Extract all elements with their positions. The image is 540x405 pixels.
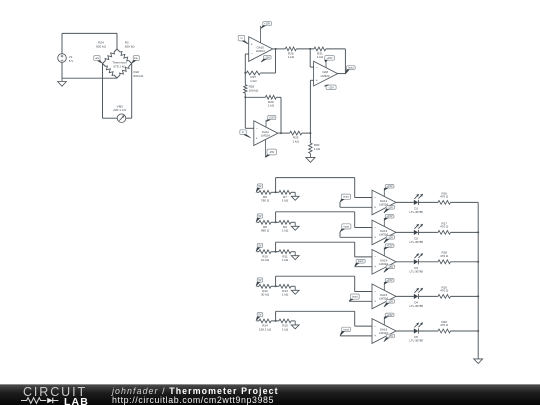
wire OA8 output [337,73,345,75]
resistor R22 [129,64,132,67]
resistor R18 [438,260,451,264]
svg-text:470 Ω: 470 Ω [440,289,449,293]
power flag +15V OA14 [385,244,394,248]
ground below R30 [309,153,311,157]
CircuitLab logo wordmark CIRCUIT [23,385,87,399]
power flag +15V at OA10 [263,22,272,26]
power flag +15V at OA8 [325,56,335,61]
wire 5V stub row OA14 [257,251,260,253]
op-amp OA13 [372,220,396,245]
wire OA10 - input stub [245,53,248,55]
wire R31 to feedback corner [326,48,346,50]
resistor R25 [290,131,302,135]
resistor R26 [285,47,296,51]
wire from voltmeter right terminal [126,117,132,119]
svg-text:-15V: -15V [269,150,275,154]
wire tap across row OA15 [276,275,355,277]
svg-text:−: − [374,196,376,200]
wire V1 top lead [61,33,63,53]
svg-text:5V: 5V [258,184,261,188]
wire OA13 output to LED [396,231,414,233]
net flag out row OA15 [351,294,360,299]
LED D1 [414,200,418,205]
svg-text:inout: inout [358,259,364,263]
svg-text:1 kΩ: 1 kΩ [317,55,324,59]
op-amp OA11 [254,121,278,146]
wire divider mid row OA13 [271,221,279,223]
svg-text:5 V: 5 V [69,59,75,63]
svg-text:−: − [374,290,376,294]
svg-text:820 kΩ: 820 kΩ [134,74,144,78]
svg-text:−: − [374,255,376,259]
power pin wire OA14 V+ [383,247,385,255]
power pin wire OA8 V+ [325,60,327,67]
svg-text:+: + [374,265,376,269]
svg-text:1 kΩ: 1 kΩ [268,104,275,108]
junction rail row 5 [477,330,479,332]
resistor R9 [279,220,291,224]
svg-text:5V: 5V [258,214,261,218]
wire R25 to divider node [302,132,311,134]
net flag bridge left node [94,56,100,61]
wire 5V stub row OA12 [257,191,260,193]
resistor R17 [438,231,451,235]
power flag -15V at OA11 [267,149,276,155]
svg-text:+15V: +15V [387,184,393,188]
resistor R6 [259,190,271,194]
junction divider tap row OA15 [275,285,277,287]
net flag out at OA8 output [347,66,356,70]
wire to ground row OA12 [291,191,295,193]
svg-text:+: + [374,236,376,240]
power flag 5V row OA15 [257,278,263,282]
wire tap riser row OA15 [275,276,277,286]
CircuitLab logo wordmark LAB [64,396,89,405]
wire into - input OA12 [355,197,372,199]
junction OA11 output node [280,132,282,134]
wire tap across row OA13 [276,211,355,213]
footer url [112,395,274,405]
ground divider row OA16 [294,321,296,325]
net flag in at OA11 + input [240,130,247,135]
svg-text:470 Ω: 470 Ω [440,254,449,258]
resistor R14 [259,319,271,323]
wire to R29 [245,96,265,98]
svg-text:LTL-30788: LTL-30788 [410,269,424,273]
wire divider mid row OA12 [271,191,279,193]
wire to ground row OA15 [291,285,295,287]
svg-text:◄in: ◄in [95,56,100,60]
wire out flag drop row OA12 [339,202,341,207]
svg-text:in►: in► [134,56,139,60]
svg-text:1 kΩ: 1 kΩ [314,147,321,151]
svg-text:-15V: -15V [388,265,394,269]
wire into bridge top vertex [116,33,118,49]
svg-text:+: + [251,42,253,46]
wire down to OA11 output [280,97,282,133]
power flag -15V OA14 [386,265,394,269]
svg-text:1 kΩ: 1 kΩ [282,293,289,297]
resistor R30 [309,143,312,153]
svg-text:1 kΩ: 1 kΩ [250,79,257,83]
ground divider row OA14 [294,252,296,256]
wire OA14 output to LED [396,261,414,263]
svg-text:5V: 5V [258,278,261,282]
wire tap across row OA16 [276,310,355,312]
power pin wire OA11 V- [264,140,266,158]
wire tap down row OA16 [354,311,356,326]
wire into + input OA12 [340,206,372,208]
junction divider tap row OA14 [275,251,277,253]
svg-text:−: − [374,226,376,230]
wire R29 to corner [276,96,281,98]
resistor R20 [438,329,451,333]
wire into OA8 - input [310,66,314,68]
svg-text:−: − [256,127,258,131]
junction rail row 4 [477,295,479,297]
svg-text:LM324: LM324 [256,49,265,53]
junction rail row 3 [477,261,479,263]
junction divider tap row OA13 [275,221,277,223]
LED D2 [414,230,418,235]
wire feedback down to OA8 output [344,49,346,74]
resistor R12 [259,284,271,288]
wire LED to R17 [419,231,438,233]
net flag out row OA14 [356,259,365,263]
wire into - input OA14 [355,256,372,258]
wire tap riser row OA12 [275,178,277,193]
wire tap riser row OA14 [275,242,277,252]
wire bridge right node down to voltmeter [131,64,133,119]
wire R26 to node [296,48,314,50]
svg-text:220.1 mV: 220.1 mV [113,108,127,112]
wire into OA11 - input [245,127,254,129]
power flag -15V OA16 [386,334,394,338]
ground divider row OA12 [294,192,296,196]
svg-text:−: − [251,52,253,56]
svg-text:+: + [374,300,376,304]
power flag 5V row OA14 [257,243,263,247]
wire OA10 output [273,48,286,50]
power flag 5V row OA16 [257,313,263,317]
wire OA8 + input stub [310,79,313,81]
svg-text:679.1 kΩ: 679.1 kΩ [113,64,126,68]
op-amp OA12 [372,190,396,215]
LED D4 [414,294,418,299]
svg-text:inout: inout [343,327,349,331]
op-amp OA16 [372,319,396,344]
svg-text:+15V: +15V [269,116,275,120]
wire into - input OA16 [355,325,372,327]
svg-text:+15V: +15V [264,22,270,26]
svg-text:100 kΩ: 100 kΩ [249,88,259,92]
resistor R19 [438,295,451,299]
LED D5 [414,328,418,333]
power flag +15V at OA11 [268,115,276,119]
svg-text:LM324: LM324 [321,74,330,78]
wire into + input OA14 [355,266,372,268]
svg-text:1 kΩ: 1 kΩ [282,258,289,262]
op-amp OA10 [249,37,273,62]
junction divider node [309,132,311,134]
wire R16 to rail [451,201,479,203]
op-amp OA14 [372,250,396,275]
op-amp OA8 [314,61,338,86]
wire LED to R18 [419,261,438,263]
svg-text:+: + [256,136,258,140]
svg-text:1 kΩ: 1 kΩ [288,55,295,59]
voltage source V1 [58,54,67,63]
wire tap down row OA15 [354,276,356,291]
svg-text:30 kΩ: 30 kΩ [261,293,270,297]
ground divider row OA13 [294,222,296,226]
svg-text:-15V: -15V [388,334,394,338]
wire tap down row OA12 [354,178,356,198]
resistor R10 [259,250,271,254]
wire feedback left leg [244,54,246,85]
svg-text:980 Ω: 980 Ω [261,229,270,233]
power flag +15V OA15 [385,279,394,283]
svg-text:−: − [374,324,376,328]
wire tap across row OA12 [276,177,355,179]
wire OA12 output to LED [396,201,414,203]
junction OA10 output node [275,48,277,50]
thermistor RT1 [103,64,106,67]
power pin wire OA13 V+ [383,218,385,226]
power flag +15V OA13 [385,215,394,219]
wire tap riser row OA13 [275,212,277,223]
wire 5V stub row OA16 [257,320,260,322]
junction R27 R28 [244,72,246,74]
wire bridge left node down to voltmeter [102,64,104,119]
resistor R13 [279,284,291,288]
svg-text:-15V: -15V [388,235,394,239]
wire tap riser row OA16 [275,311,277,321]
wire 5V stub row OA15 [257,285,260,287]
resistor R31 [314,47,326,51]
svg-text:-15V: -15V [328,85,334,89]
wire LED return rail [477,202,479,359]
junction rail row 2 [477,231,479,233]
wire into + input OA16 [340,335,372,337]
power pin wire OA10 V+ [260,26,262,43]
wire R17 to rail [451,231,479,233]
svg-text:inout: inout [352,295,358,299]
wire tap down row OA13 [354,212,356,228]
power pin wire OA11 V+ [265,120,267,128]
wire OA16 output to LED [396,330,414,332]
power flag -15V OA15 [386,300,394,304]
power flag 5V row OA13 [257,214,263,218]
net flag in at OA10 + input [238,35,245,41]
resistor R24 [114,49,117,52]
power flag -15V OA13 [386,236,394,240]
svg-text:inout: inout [348,66,354,70]
junction R29 tap [244,96,246,98]
svg-text:470 Ω: 470 Ω [440,323,449,327]
wire to ground row OA14 [291,251,295,253]
wire node down to OA8 inverting input [309,49,311,67]
svg-text:+: + [316,79,318,83]
wire into + input OA15 [349,300,372,302]
svg-text:-15V: -15V [265,55,271,59]
power flag -15V at OA10 [264,56,272,60]
wire divider mid row OA16 [271,320,279,322]
wire into - input OA13 [355,227,372,229]
wire bottom rail to bridge bottom vertex [62,77,117,79]
wire OA15 output to LED [396,295,414,297]
net flag out row OA16 [342,327,351,331]
LED D3 [414,259,418,264]
svg-text:820 kΩ: 820 kΩ [125,45,135,49]
svg-text:-15V: -15V [388,205,394,209]
wire tap across row OA14 [276,241,355,243]
ground at rail bottom [477,358,479,360]
svg-text:inout: inout [344,224,350,228]
svg-text:+: + [374,334,376,338]
wire down to OA11 - input [244,93,246,128]
svg-text:10 kΩ: 10 kΩ [261,258,270,262]
wire LED to R20 [419,330,438,332]
wire LED to R19 [419,295,438,297]
svg-text:+15V: +15V [326,56,332,60]
wire R19 to rail [451,295,479,297]
wire R18 to rail [451,261,479,263]
resistor R11 [279,250,291,254]
svg-text:1 kΩ: 1 kΩ [282,327,289,331]
svg-text:138.1 kΩ: 138.1 kΩ [259,327,272,331]
svg-text:820 kΩ: 820 kΩ [96,45,106,49]
CircuitLab logo resistor-diode glyph [21,396,64,405]
junction divider tap row OA16 [275,320,277,322]
wire 5V stub row OA13 [257,221,260,223]
svg-text:1 kΩ: 1 kΩ [293,139,300,143]
wire top rail from V1 to bridge [62,32,117,34]
svg-text:inout: inout [343,195,349,199]
power flag -15V OA12 [386,206,394,210]
resistor R29 [265,95,276,99]
svg-text:+15V: +15V [387,214,393,218]
junction divider tap row OA12 [275,191,277,193]
resistor R8 [259,220,271,224]
svg-text:LTL-30788: LTL-30788 [410,339,424,343]
op-amp OA15 [372,284,396,309]
wire OA11 output [278,132,290,134]
svg-text:1 kΩ: 1 kΩ [282,229,289,233]
wire to ground row OA16 [291,320,295,322]
resistor R7 [279,190,291,194]
resistor R28 [244,85,247,94]
svg-text:470 Ω: 470 Ω [440,225,449,229]
svg-text:-15V: -15V [388,299,394,303]
svg-text:5V: 5V [258,313,261,317]
wire to ground row OA13 [291,221,295,223]
svg-text:+15V: +15V [387,313,393,317]
net flag bridge right node [133,56,139,61]
power pin wire OA12 V+ [383,188,385,196]
svg-text:+15V: +15V [387,278,393,282]
svg-text:780 Ω: 780 Ω [261,199,270,203]
svg-text:−: − [316,65,318,69]
net flag out row OA12 [341,194,350,199]
svg-text:470 Ω: 470 Ω [440,195,449,199]
resistor R2 [117,49,120,52]
wire feedback up to OA10 output [275,49,277,73]
wire to voltmeter left terminal [103,117,118,119]
svg-text:LM324: LM324 [261,133,270,137]
ground divider row OA15 [294,286,296,290]
wire tap down row OA14 [354,242,356,257]
svg-text:LTL-30788: LTL-30788 [410,240,424,244]
svg-text:+: + [374,206,376,210]
resistor R27 [246,71,260,75]
wire into - input OA15 [355,291,372,293]
svg-text:LTL-30788: LTL-30788 [410,210,424,214]
svg-text:LTL-30788: LTL-30788 [410,304,424,308]
power pin wire OA15 V+ [383,282,385,290]
resistor R16 [438,201,451,205]
svg-text:5V: 5V [258,244,261,248]
wire out flag drop row OA13 [339,232,341,238]
svg-text:+15V: +15V [387,244,393,248]
power pin wire OA16 V+ [383,317,385,325]
wire divider mid row OA15 [271,285,279,287]
power flag 5V row OA12 [257,184,263,188]
wire down to divider node [309,80,311,143]
wire R20 to rail [451,330,479,332]
wire V1 bottom lead [61,62,63,78]
wire LED to R16 [419,201,438,203]
svg-text:1 kΩ: 1 kΩ [282,199,289,203]
power flag +15V OA12 [385,185,394,189]
resistor R15 [279,319,291,323]
junction OA8 input node [309,48,311,50]
net flag out row OA13 [342,224,351,229]
wire divider mid row OA14 [271,251,279,253]
voltmeter VM2 [117,114,126,123]
power flag +15V OA16 [385,313,394,317]
ground at V1 [61,78,63,81]
power flag -15V at OA8 [326,85,336,90]
wire R27 to output corner [260,72,275,74]
wire into + input OA13 [340,236,372,238]
footer byline [112,386,279,396]
